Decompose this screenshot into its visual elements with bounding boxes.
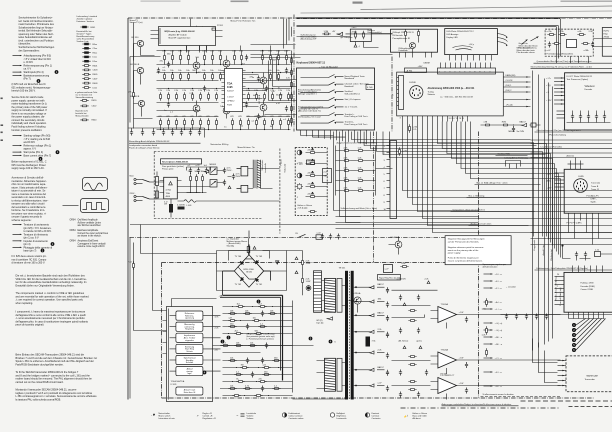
inductor L601: [184, 200, 196, 203]
svg-text:Fernbedienung 29504-049.11: Fernbedienung 29504-049.11: [547, 53, 575, 56]
node junction: [180, 50, 181, 51]
resistor audio right: [291, 56, 293, 64]
resistor secondary: [228, 313, 236, 315]
svg-text:Rückwandpl.: Rückwandpl.: [551, 248, 553, 260]
svg-text:Ausgleich elektronisch nach Ab: Ausgleich elektronisch nach Abgl. (u. We…: [337, 142, 377, 145]
svg-text:250V~: 250V~: [227, 170, 234, 172]
op-amp U701 TY620A: [438, 307, 457, 323]
resistor audio row1: [278, 53, 280, 61]
svg-text:wie Skizzen ausrichten: wie Skizzen ausrichten: [78, 224, 102, 227]
wire (none) service text column english: [12, 96, 48, 132]
resistor audio right: [291, 104, 293, 112]
svg-text:2.2k: 2.2k: [174, 90, 179, 92]
svg-text:Croma / RGB: Croma / RGB: [581, 288, 594, 291]
node supply label + G (~u): [484, 322, 493, 324]
svg-text:2.7k: 2.7k: [413, 129, 418, 131]
op-amp U601 control IC: [164, 177, 178, 199]
svg-text:bereich 160 bis 260 V.: bereich 160 bis 260 V.: [12, 90, 36, 93]
svg-text:R5xx: R5xx: [93, 52, 98, 54]
resistor audio row2: [220, 72, 222, 80]
svg-text:u22: u22: [263, 364, 267, 366]
svg-text:1195: 1195: [227, 85, 233, 89]
svg-text:10k: 10k: [210, 70, 214, 72]
node junction: [252, 72, 253, 73]
resistor audio row3: [184, 92, 186, 100]
wire tuning out 5: [503, 106, 530, 108]
svg-text:10k: 10k: [202, 70, 206, 72]
svg-text:Zubehör / optional: Zubehör / optional: [77, 18, 93, 21]
svg-text:Dpn (5): Dpn (5): [317, 322, 324, 324]
node junction: [184, 129, 185, 130]
capacitor secondary: [251, 372, 254, 378]
svg-text:IC-VCT Platte 29504-102.11: IC-VCT Platte 29504-102.11: [567, 75, 594, 78]
svg-text:4.7k: 4.7k: [344, 158, 349, 160]
svg-text:Abfrage vorgeführt 1: Abfrage vorgeführt 1: [298, 93, 318, 96]
diode secondary rect: [369, 330, 375, 333]
svg-text:Änderungen vorbehalten/Subject: Änderungen vorbehalten/Subject to altera…: [442, 403, 513, 406]
op-amp U901: [567, 40, 577, 48]
wire tuning fanout left group: [403, 122, 612, 191]
svg-text:IC 631: IC 631: [171, 384, 178, 386]
svg-text:Lautstärke: Lautstärke: [247, 412, 257, 415]
svg-text:Raumklang-Anschlußplatte 29504: Raumklang-Anschlußplatte 29504-058.02: [129, 140, 170, 143]
svg-text:⚡: ⚡: [404, 415, 407, 419]
svg-text:120n: 120n: [482, 309, 487, 311]
capacitor opamp area: [417, 392, 420, 398]
colour module box Farbbaustein: [564, 272, 612, 312]
svg-text:Ausbau / consult unten: Ausbau / consult unten: [471, 223, 492, 226]
diode secondary rect: [369, 351, 375, 354]
svg-text:1.2k: 1.2k: [358, 168, 363, 170]
wire secondary rails extra: [223, 307, 293, 396]
node legend Kontrast: [365, 413, 369, 417]
svg-text:IR-Empf. 29504-076.11: IR-Empf. 29504-076.11: [393, 32, 415, 34]
svg-text:PG 7B: PG 7B: [441, 374, 448, 376]
node junction: [240, 129, 241, 130]
right edge module box: [602, 28, 612, 57]
svg-text:Ersatzfall dürfen nur Original: Ersatzfall dürfen nur Originalteile Verw…: [16, 285, 75, 288]
svg-text:pezzi di ricambio originali.: pezzi di ricambio originali.: [16, 324, 45, 327]
resistor R665: [133, 261, 135, 269]
node tuning pin 1: [445, 63, 447, 69]
wire top-right bus bend: [557, 19, 561, 64]
svg-text:+ F / ~u: + F / ~u: [495, 288, 502, 290]
inductor secondary winding: [325, 358, 336, 391]
oscillogram box 2: [81, 199, 109, 213]
resistor audio row1: [164, 53, 166, 61]
resistor audio row2: [241, 72, 243, 80]
svg-text:8: 8: [384, 195, 386, 197]
svg-text:1W: 1W: [241, 364, 244, 366]
svg-text:TDA: TDA: [166, 192, 171, 195]
svg-text:(5/0) 2: (5/0) 2: [506, 90, 513, 92]
resistor audio row4: [216, 118, 218, 126]
svg-text:1k: 1k: [246, 57, 249, 59]
resistor opamp input: [408, 389, 416, 391]
svg-text:BC 550: BC 550: [132, 37, 140, 39]
resistor R614 dark: [178, 207, 185, 210]
svg-text:misure sul primario dell'alime: misure sul primario dell'alimentatore.: [448, 260, 483, 263]
svg-text:2.2k: 2.2k: [166, 90, 171, 92]
svg-text:(↓ Potential prüf (nach pri: (↓ Potential prüf (nach primär): [247, 337, 274, 340]
svg-text:R620: R620: [92, 100, 98, 102]
svg-text:2.2k: 2.2k: [278, 90, 283, 92]
remote control preamp dashed box: [545, 29, 593, 56]
wire tuning out 3: [503, 91, 530, 93]
capacitor audio: [245, 55, 248, 61]
resistor audio row4: [280, 118, 282, 126]
tuning unit Abstimmung 29504-903.1503: [397, 72, 504, 116]
svg-text:(Pin 7): (Pin 7): [24, 78, 31, 81]
resistor audio row2: [180, 72, 182, 80]
resistor audio row2: [204, 72, 206, 80]
svg-text:Piastra di collegam. (Tipo St: Piastra di collegam. (Tipo Stereo): [129, 146, 160, 149]
svg-text:supply range 160 to 260 V AC.: supply range 160 to 260 V AC.: [12, 167, 45, 170]
svg-text:L5xx: L5xx: [93, 57, 97, 59]
svg-text:Colour contrast: Colour contrast: [289, 414, 303, 417]
svg-text:2/3kV: 2/3kV: [352, 32, 358, 34]
svg-text:K: K: [392, 95, 394, 97]
node junction: [208, 129, 209, 130]
svg-text:MB105: MB105: [210, 164, 217, 166]
svg-text:C5xx: C5xx: [93, 48, 98, 50]
resistor audio row4: [176, 118, 178, 126]
resistor R611 5.1 ohm: [169, 204, 173, 213]
resistor EW a: [342, 180, 350, 182]
resistor audio row4: [288, 118, 290, 126]
node transformer tap: [355, 385, 357, 387]
LED display module 29504-055/077.12: [445, 29, 498, 55]
resistor EW b: [356, 180, 364, 182]
node tuning pin 2: [450, 63, 452, 69]
svg-text:+ M / ~u: + M / ~u: [495, 337, 503, 339]
resistor secondary: [248, 345, 256, 347]
svg-text:Bestellbezeichnung: Bestellbezeichnung: [77, 35, 95, 38]
node transformer tap: [355, 314, 357, 316]
svg-text:R605: R605: [93, 74, 99, 76]
svg-text:← einseitet: ← einseitet: [506, 286, 517, 289]
oscillogram box 1: [83, 178, 108, 191]
svg-text:function presents oscillation:: function presents oscillation:: [12, 129, 43, 132]
svg-text:Farbbaustein – Farb/Videopla: Farbbaustein – Farb/Videoplatte 29504-04…: [537, 267, 588, 270]
svg-text:Querverbinder Über Buchse (: Querverbinder Über Buchse (Türe) nach Fe…: [537, 60, 593, 63]
transistor T641 BN294-A: [354, 297, 361, 304]
wire section divider tuning zone: [373, 132, 375, 263]
svg-text:4.7k: 4.7k: [344, 148, 349, 150]
wire frame top border: [128, 17, 612, 19]
svg-text:C 2507: C 2507: [227, 97, 234, 99]
resistor audio row3: [280, 92, 282, 100]
svg-text:Leitung AnTun Freileitung: Leitung AnTun Freileitung: [505, 157, 528, 160]
capacitor secondary: [261, 311, 264, 317]
resistor audio row3: [208, 92, 210, 100]
svg-text:4.7kΩ: 4.7kΩ: [367, 87, 373, 89]
svg-text:Netz über Gl: Netz über Gl: [184, 391, 196, 394]
node supply label + D / ~u: [484, 273, 493, 275]
node test point 4: [572, 338, 576, 342]
svg-text:+ 1W: + 1W: [459, 383, 464, 385]
svg-text:Koppelverb.: Koppelverb.: [533, 239, 536, 250]
node tuning pin 5: [465, 63, 467, 69]
switch mains b: [143, 197, 150, 200]
svg-text:2k2: 2k2: [235, 330, 239, 332]
capacitor opamp area: [417, 295, 420, 301]
node test point 3: [572, 333, 576, 337]
wire frame left border: [127, 18, 129, 400]
transformer TR601 SNT: [241, 166, 248, 176]
capacitor opamp area: [417, 328, 420, 334]
svg-text:Amplifier AF module: Amplifier AF module: [169, 34, 188, 37]
svg-text:1k2: 1k2: [237, 303, 241, 305]
svg-text:siehe Ersatzteilliste: siehe Ersatzteilliste: [77, 38, 95, 41]
svg-text:Tuner B: Tuner B: [591, 185, 599, 188]
svg-text:u.78n: u.78n: [547, 31, 552, 33]
node tuning pin 0: [440, 63, 442, 69]
svg-text:1.2k: 1.2k: [358, 158, 363, 160]
wire keyboard feeds: [265, 80, 297, 115]
wire (none) oscillogram captions: [70, 219, 109, 249]
svg-text:2.2k: 2.2k: [286, 90, 291, 92]
svg-text:Vordere Liste: Vordere Liste: [77, 40, 90, 43]
wire secondary divider: [130, 236, 479, 238]
audio right column parts: [291, 51, 293, 127]
diode bridge arm: [254, 259, 259, 264]
resistor secondary: [228, 326, 236, 328]
node supply label + A / ~u: [484, 301, 493, 303]
resistor secondary: [262, 374, 270, 376]
resistor audio row2: [270, 72, 272, 80]
svg-text:R609: R609: [93, 83, 99, 85]
svg-text:Preamplificatore IR: Preamplificatore IR: [393, 37, 411, 40]
resistor audio row1: [188, 53, 190, 61]
node junction: [220, 64, 221, 65]
op-amp sub-block Impulserzeu: [176, 333, 203, 342]
switch S301: [301, 77, 329, 79]
node tuning pin 4: [460, 63, 462, 69]
svg-text:Ost/West Amplitude: Ost/West Amplitude: [78, 219, 99, 222]
resistor EW a: [342, 190, 350, 192]
resistor R701: [405, 29, 407, 37]
svg-text:Leuchtet zur (Fall zelle): Leuchtet zur (Fall zelle): [541, 145, 563, 148]
svg-text:2.98: 2.98: [589, 31, 594, 33]
node legend Helligkeit: [330, 413, 334, 417]
node tuning pin 10: [490, 63, 492, 69]
svg-text:Mono-TV für H-Geräte: Ton: Mono-TV für H-Geräte: Ton: [231, 19, 256, 22]
svg-text:+A 7B4: +A 7B4: [406, 69, 414, 72]
svg-text:u.47: u.47: [271, 91, 276, 93]
svg-text:auf der Primärseite des Netzte: auf der Primärseite des Netzteils.: [448, 241, 480, 244]
svg-text:2.2k: 2.2k: [215, 328, 220, 330]
svg-text:Fine-Tuning u.Ch/S Tast +: Fine-Tuning u.Ch/S Tast +: [345, 115, 370, 118]
svg-text:Negative reference point for m: Negative reference point for measure-: [448, 246, 484, 249]
svg-text:L 601: L 601: [187, 205, 193, 207]
wire section divider keyboard/tuning: [391, 57, 393, 132]
svg-text:2.2k: 2.2k: [198, 90, 203, 92]
node transformer tap: [355, 331, 357, 333]
node supply label + E / ~u: [484, 371, 493, 373]
svg-text:7.04: 7.04: [128, 262, 133, 264]
capacitor opamp area: [399, 370, 402, 376]
svg-text:la taratura PAL sulla scheda c: la taratura PAL sulla scheda croma/RGB.: [16, 398, 62, 401]
svg-text:Mono-Geräten: Mono-Geräten: [76, 114, 89, 117]
resistor audio row4: [160, 118, 162, 126]
svg-text:Videotext: Videotext: [585, 85, 595, 88]
node junction: [196, 72, 197, 73]
potentiometer P1: [297, 150, 302, 155]
svg-text:IR-Vorstufe: IR-Vorstufe: [393, 34, 404, 37]
wire power module dashed outline: [154, 152, 262, 219]
svg-text:East/west amplitude.: East/west amplitude.: [78, 229, 100, 232]
svg-text:logic: logic: [187, 373, 191, 375]
svg-text:u.1: u.1: [251, 121, 255, 123]
svg-text:Base current drive (Pin 7): Base current drive (Pin 7): [24, 154, 52, 157]
capacitor audio: [257, 114, 260, 120]
svg-text:Geräten ¹ Typen: Geräten ¹ Typen: [77, 33, 92, 36]
wire bottom power rails: [293, 398, 346, 400]
resistor secondary: [243, 388, 251, 390]
relay contact RL641: [299, 234, 306, 237]
svg-text:27k: 27k: [128, 92, 132, 94]
resistor audio right: [291, 92, 293, 100]
svg-text:Plus decoder chena: Plus decoder chena: [519, 47, 538, 50]
node junction: [192, 88, 193, 89]
node transformer tap: [355, 352, 357, 354]
svg-text:10k: 10k: [268, 70, 272, 72]
resistor R655: [400, 266, 408, 268]
op-amp U201 TDA1195: [225, 69, 243, 112]
node test point 2: [572, 328, 576, 332]
svg-text:Emp: Emp: [604, 34, 609, 36]
diode D603: [204, 170, 209, 173]
svg-text:Fine-Tuning u.Ch/S Tast -: Fine-Tuning u.Ch/S Tast -: [345, 123, 369, 126]
svg-text:6: 6: [384, 181, 386, 183]
svg-text:2.2k: 2.2k: [324, 172, 329, 174]
svg-text:TCA 4500/TDA: TCA 4500/TDA: [171, 380, 185, 383]
svg-text:⏚: ⏚: [358, 44, 360, 48]
svg-text:Bass and treble: Bass and treble: [413, 414, 428, 417]
svg-text:BA157: BA157: [378, 366, 385, 369]
svg-text:Anschl. Ltg.: Anschl. Ltg.: [542, 244, 545, 255]
svg-text:Anlauf / start: Anlauf / start: [184, 389, 196, 392]
svg-text:1st 1 T´n/selfs: 1st 1 T´n/selfs: [345, 105, 358, 108]
node junction: [248, 88, 249, 89]
svg-text:BC 548 B: BC 548 B: [259, 94, 261, 103]
svg-text:7k86: 7k86: [502, 121, 507, 123]
power secondary component field: [220, 300, 312, 393]
svg-text:Schutz: Schutz: [186, 350, 192, 353]
svg-text:Drehknöpfe(+2 16 C1-02: Drehknöpfe(+2 16 C1-02: [298, 116, 321, 119]
switch S305: [301, 107, 329, 109]
node video junction: [561, 244, 563, 246]
svg-text:BA157: BA157: [520, 120, 527, 123]
svg-text:10k: 10k: [186, 70, 190, 72]
svg-text:10k: 10k: [253, 317, 257, 319]
svg-text:2.78k: 2.78k: [559, 31, 565, 33]
svg-text:B+: B+: [237, 378, 240, 380]
svg-text:u.7A: u.7A: [413, 126, 418, 129]
wire primary-secondary divider: [279, 149, 281, 234]
resistor EW b: [356, 160, 364, 162]
resistor audio row4: [192, 118, 194, 126]
svg-text:1W: 1W: [164, 204, 167, 206]
svg-text:Farbkontrast: Farbkontrast: [289, 412, 301, 415]
svg-text:u.47/250V: u.47/250V: [397, 279, 407, 281]
resistor audio row3: [240, 92, 242, 100]
svg-text:BC548: BC548: [276, 95, 283, 97]
capacitor secondary: [261, 386, 264, 392]
node junction: [172, 72, 173, 73]
svg-text:Bandwahl: Bandwahl: [345, 86, 355, 88]
wire (none) service text column german: [19, 17, 55, 53]
capacitor videotext C90: [571, 114, 574, 120]
transistor IR photodiode: [410, 43, 416, 49]
resistor audio row3: [160, 92, 162, 100]
IR receiver module 29504-076.11: [391, 29, 438, 52]
svg-text:Lieferumfang / standard: Lieferumfang / standard: [77, 15, 97, 18]
svg-text:Control +R: Control +R: [203, 414, 213, 417]
node supply label + C / ~u: [484, 357, 493, 359]
svg-text:u7B: u7B: [484, 121, 488, 123]
node tuning pin 3: [455, 63, 457, 69]
op-amp U703 PG 7B/M21.CT: [438, 378, 457, 394]
resistor R503: [133, 90, 135, 98]
wire section divider power top: [162, 262, 479, 264]
svg-text:Regolatore +R: Regolatore +R: [203, 417, 217, 420]
svg-text:560: 560: [255, 330, 259, 332]
resistor secondary: [234, 374, 242, 376]
transistor BC548 stage: [260, 77, 267, 84]
op-amp U702 TY620A: [438, 352, 457, 368]
svg-text:C607: C607: [93, 79, 99, 81]
svg-text:470: 470: [238, 116, 242, 118]
wire section divider audio/keyboard: [293, 15, 295, 132]
resistor audio row2: [172, 72, 174, 80]
switch S307: [301, 122, 329, 124]
node supply label – G (~u): [484, 329, 493, 331]
wire bridge outer loop: [217, 251, 287, 291]
capacitor audio: [285, 106, 288, 112]
svg-text:TR 651: TR 651: [339, 268, 347, 270]
resistor primary cluster: [190, 174, 192, 182]
svg-text:Negativer Bezugspunkt für Mess: Negativer Bezugspunkt für Messungen: [448, 238, 486, 241]
svg-text:spannung: spannung: [185, 318, 194, 320]
svg-text:+33V: +33V: [547, 188, 552, 190]
svg-text:Synth.: Synth.: [591, 201, 597, 204]
svg-text:u.98k: u.98k: [584, 50, 590, 52]
switch mains a: [143, 180, 150, 183]
resistor opamp input: [408, 381, 416, 383]
svg-text:gn/ws: gn/ws: [417, 341, 422, 343]
resistor opamp input: [408, 310, 416, 312]
svg-text:1.2k: 1.2k: [358, 148, 363, 150]
wire tuning out 2: [503, 86, 530, 88]
wire section divider power left: [161, 263, 163, 399]
transistor BC548 stage: [223, 60, 230, 67]
resistor audio row4: [184, 118, 186, 126]
svg-text:Decoder (RGB): Decoder (RGB): [581, 285, 595, 288]
svg-text:Kontrast: Kontrast: [372, 412, 380, 415]
resistor audio row4: [256, 118, 258, 126]
resistor EW b: [356, 170, 364, 172]
capacitor audio: [157, 68, 160, 74]
svg-text:Abstimmung 29504-903 1503 (u.: Abstimmung 29504-903 1503 (u. ~331 011: [428, 87, 476, 90]
svg-text:BA157: BA157: [378, 311, 385, 314]
svg-text:+ M / ~u: + M / ~u: [495, 344, 503, 346]
resistor audio row4: [264, 118, 266, 126]
capacitor C851: [575, 252, 578, 258]
potentiometer P3: [297, 173, 302, 178]
resistor R764: [483, 124, 491, 126]
